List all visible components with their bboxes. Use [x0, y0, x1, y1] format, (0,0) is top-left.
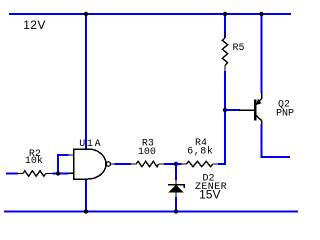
junction dot top rail / R5 [223, 12, 227, 16]
wire Q2 base from R5 branch [225, 109, 240, 111]
transistor Q2 [239, 93, 294, 124]
wire R2 to gate inputs [53, 173, 69, 175]
resistor R3 [131, 139, 164, 167]
wire Q2 collector down and right [262, 124, 291, 157]
svg-text:U1A: U1A [79, 139, 102, 150]
op-amp U1A nand gate [69, 139, 115, 179]
wire bottom ground rail [4, 211, 298, 213]
wire Q2 emitter vertical [261, 14, 263, 93]
diode D2 zener [168, 174, 227, 202]
junction dot ground / U1A [84, 209, 88, 213]
wire R5 bottom down to R4 corner [224, 71, 226, 164]
wire top 12V rail [9, 13, 291, 15]
svg-text:PNP: PNP [276, 109, 294, 120]
resistor R2 [6, 149, 53, 176]
wire R3 to junction [164, 163, 176, 165]
wire R5 branch upper [224, 14, 226, 38]
junction dot R3/R4/D2 [174, 162, 178, 166]
junction dot ground / D2 [174, 209, 178, 213]
wire zener top [175, 164, 177, 180]
junction dot top rail / Q2 emitter [259, 12, 263, 16]
svg-text:6,8k: 6,8k [187, 146, 213, 158]
junction dot R2 / input tie [56, 171, 60, 175]
svg-text:10k: 10k [25, 155, 43, 167]
svg-text:12V: 12V [23, 18, 46, 32]
wire vertical from rail to U1A top [85, 14, 87, 149]
svg-text:100: 100 [138, 147, 156, 158]
wire input tie vertical [58, 155, 69, 174]
wire R4 to corner [218, 163, 226, 165]
wire U1A bottom to ground rail [85, 179, 87, 212]
wire zener bottom to ground rail [175, 197, 177, 212]
junction dot base of Q2 branch [223, 108, 227, 112]
svg-text:15V: 15V [199, 188, 220, 202]
junction dot top rail / U1A [84, 12, 88, 16]
resistor R5 [222, 32, 244, 71]
svg-text:R5: R5 [233, 43, 245, 54]
wire gate output to R3 [115, 163, 132, 165]
resistor R4 [176, 138, 218, 167]
